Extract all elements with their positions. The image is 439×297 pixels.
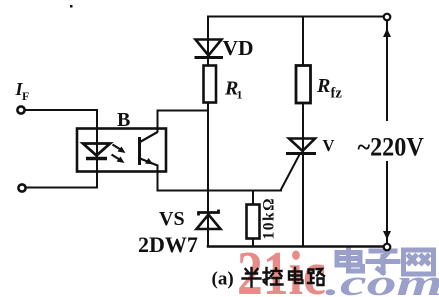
wire top rail bbox=[208, 16, 384, 18]
caption 路 bbox=[308, 269, 324, 285]
wire LED lead bbox=[96, 129, 98, 188]
caption 控 bbox=[264, 268, 283, 285]
opto phototransistor bbox=[140, 132, 158, 166]
opto emitter arrowhead bbox=[145, 158, 154, 165]
网 bbox=[404, 250, 434, 274]
svg-text:VD: VD bbox=[223, 36, 254, 60]
resistor R1 bbox=[204, 66, 217, 103]
opto light arrow 1 bbox=[113, 145, 126, 154]
caption 半 bbox=[243, 268, 261, 287]
svg-text:1: 1 bbox=[237, 88, 243, 102]
diode VD bbox=[195, 40, 224, 58]
子 bbox=[368, 251, 398, 273]
wire right side AC line bbox=[386, 21, 388, 243]
wire bottom-left input bbox=[27, 187, 98, 189]
terminal top-left bbox=[17, 106, 24, 113]
wire collector to R1 bottom bbox=[158, 111, 209, 132]
svg-text:10kΩ: 10kΩ bbox=[261, 197, 278, 240]
terminal top-right bbox=[384, 14, 391, 21]
svg-text:(a): (a) bbox=[212, 269, 234, 290]
terminal bottom-right bbox=[384, 244, 391, 251]
wire bottom rail bbox=[208, 245, 384, 248]
zener VS bbox=[197, 210, 221, 230]
wire emitter lead / gate line bbox=[158, 166, 282, 191]
resistor Rfz bbox=[296, 66, 311, 104]
svg-text:V: V bbox=[323, 136, 335, 155]
wire 10k leads bbox=[252, 191, 254, 247]
svg-text:F: F bbox=[22, 89, 29, 103]
watermark .com bbox=[325, 262, 439, 297]
svg-text:2DW7: 2DW7 bbox=[138, 232, 198, 257]
watermark 21ic bbox=[237, 240, 326, 297]
optocoupler box B bbox=[77, 129, 166, 172]
opto light arrow 2 bbox=[112, 155, 125, 164]
speck bbox=[70, 5, 73, 8]
watermark 电子网 bbox=[337, 249, 434, 275]
resistor 10k bbox=[247, 205, 260, 239]
svg-text:~220V: ~220V bbox=[358, 134, 424, 162]
svg-text:R: R bbox=[316, 75, 330, 97]
wire main left vertical (VD/R1/VS branch) bbox=[207, 17, 209, 247]
wire top-left input bbox=[26, 110, 98, 129]
caption 电 bbox=[289, 268, 303, 283]
svg-text:VS: VS bbox=[159, 208, 185, 230]
terminal bottom-left bbox=[18, 184, 25, 191]
svg-text:B: B bbox=[117, 109, 130, 131]
wire gate diagonal bbox=[281, 155, 300, 190]
wire Rfz / thyristor vertical bbox=[302, 17, 304, 247]
arrow down on AC line bbox=[383, 231, 391, 240]
thyristor V bbox=[286, 139, 316, 154]
电 bbox=[337, 249, 363, 272]
opto LED bbox=[83, 144, 110, 159]
svg-text:fz: fz bbox=[331, 86, 343, 102]
arrow up on AC line bbox=[383, 29, 391, 38]
